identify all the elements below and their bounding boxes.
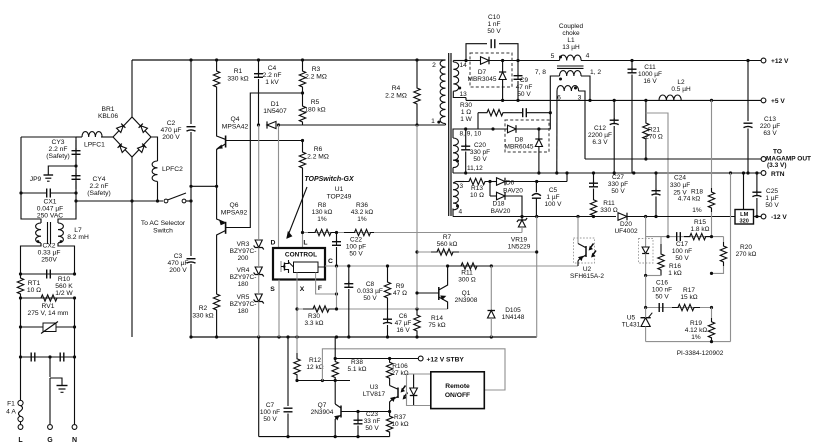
svg-text:R18: R18 (691, 189, 703, 196)
svg-text:C25: C25 (766, 188, 778, 195)
op-amp U1 TOPSwitch control block (273, 248, 325, 280)
diode box D8 (505, 120, 549, 152)
node junction (74, 199, 77, 202)
optocoupler U2 phototransistor (574, 238, 595, 263)
svg-text:4 A: 4 A (6, 409, 16, 416)
capacitor CY4 label (87, 176, 110, 197)
svg-text:U5: U5 (627, 315, 636, 322)
inductor L1 winding 5-4 (560, 55, 582, 60)
resistor R3 (299, 60, 305, 93)
capacitor C6 label (395, 313, 412, 334)
wire (186, 200, 191, 202)
svg-text:R13: R13 (471, 185, 483, 192)
zener VR5 (255, 294, 262, 302)
node junction (295, 379, 298, 382)
svg-text:R16: R16 (669, 263, 681, 270)
wire (646, 341, 731, 343)
svg-text:+12 V: +12 V (771, 58, 789, 65)
svg-text:R14: R14 (431, 315, 443, 322)
svg-text:R1: R1 (234, 68, 243, 75)
capacitor C10 (490, 39, 492, 48)
wire (477, 113, 479, 129)
svg-text:R9: R9 (396, 283, 405, 290)
terminal L (20, 422, 22, 424)
svg-text:63 V: 63 V (763, 130, 777, 137)
node junction (488, 180, 491, 183)
resistor R17 (672, 304, 700, 310)
resistor R20 (723, 237, 725, 242)
node junction (335, 264, 338, 267)
svg-text:50 V: 50 V (655, 294, 669, 301)
svg-text:R2: R2 (199, 305, 208, 312)
svg-text:1 kΩ: 1 kΩ (668, 270, 682, 277)
svg-text:R15: R15 (694, 219, 706, 226)
svg-text:50 V: 50 V (363, 295, 377, 302)
wire +5V rectified rail (465, 98, 467, 101)
resistor R19 (711, 308, 713, 319)
diode D8a (508, 125, 517, 133)
svg-text:F1: F1 (7, 401, 15, 408)
node junction (356, 410, 359, 413)
transformer pin 3 label (460, 183, 464, 190)
transistor Q4 MPSA42 (225, 136, 227, 148)
svg-text:R106: R106 (392, 363, 408, 370)
svg-text:BR1: BR1 (101, 106, 114, 113)
svg-text:1: 1 (431, 118, 435, 125)
wire (21, 356, 75, 358)
transformer T1 primary winding (440, 60, 445, 124)
resistor R9 (384, 266, 390, 302)
svg-text:ON/OFF: ON/OFF (445, 392, 470, 399)
svg-text:C10: C10 (488, 14, 500, 21)
svg-text:Coupled: Coupled (559, 23, 584, 30)
label +5V (771, 98, 785, 105)
svg-text:D105: D105 (505, 307, 521, 314)
shunt regulator U5 label (622, 315, 641, 329)
svg-text:C2: C2 (167, 120, 176, 127)
wire drain rail (279, 124, 446, 126)
svg-text:C13: C13 (764, 116, 776, 123)
pin label L (303, 240, 307, 247)
svg-text:choke: choke (562, 30, 580, 37)
svg-text:13: 13 (460, 91, 468, 98)
resistor R8 label (312, 202, 333, 223)
node junction (301, 139, 304, 142)
node junction (257, 123, 260, 126)
transformer pin 4 label (459, 209, 463, 216)
wire R8 row (303, 232, 418, 234)
svg-text:560 K: 560 K (55, 283, 73, 290)
resistor R11 label (458, 270, 476, 284)
transformer pin 14 label (460, 62, 468, 69)
wire (550, 76, 559, 113)
transistor Q7 2N3904 (334, 381, 336, 405)
svg-text:1%: 1% (692, 207, 702, 214)
svg-text:7, 8: 7, 8 (535, 69, 546, 76)
varistor RV1 (43, 323, 56, 332)
svg-text:50 V: 50 V (349, 251, 363, 258)
svg-text:CX1: CX1 (43, 199, 56, 206)
svg-text:R12: R12 (309, 357, 321, 364)
svg-text:MPSA42: MPSA42 (222, 124, 249, 131)
svg-text:UF4002: UF4002 (614, 228, 638, 235)
transformer pin 11,12 label (467, 165, 483, 172)
node junction (189, 185, 192, 188)
wire (20, 298, 22, 327)
annotation PI-3384-120902 (677, 350, 724, 357)
svg-text:1N5229: 1N5229 (508, 244, 531, 251)
svg-text:1%: 1% (317, 216, 327, 223)
svg-text:D8: D8 (515, 137, 524, 144)
svg-text:47 Ω: 47 Ω (393, 290, 407, 297)
resistor R14 (414, 309, 420, 337)
capacitor C16 (658, 303, 660, 312)
svg-text:33 nF: 33 nF (364, 418, 381, 425)
wire Q6 base (226, 93, 303, 228)
capacitor CY1 (30, 353, 32, 362)
diode D8 label (505, 137, 534, 151)
svg-text:1%: 1% (691, 334, 701, 341)
svg-text:10 Ω: 10 Ω (470, 192, 484, 199)
diode box D7 (470, 53, 512, 87)
ground (50, 378, 62, 386)
capacitor C22 (336, 233, 338, 242)
svg-text:10 kΩ: 10 kΩ (391, 421, 408, 428)
capacitor CY3 (75, 140, 77, 151)
svg-text:200 V: 200 V (162, 134, 180, 141)
wire bias rail (453, 216, 616, 218)
varistor RV1 label (27, 303, 68, 317)
wire startup feed (191, 185, 217, 187)
svg-text:13 µH: 13 µH (562, 44, 580, 51)
resistor R6 label (307, 146, 329, 161)
capacitor C24 (655, 173, 657, 191)
diode D105 label (502, 307, 525, 321)
wire R30 row (297, 308, 448, 310)
capacitor CX2 (46, 270, 48, 279)
svg-text:12 kΩ: 12 kΩ (306, 364, 323, 371)
wire (157, 182, 159, 202)
resistor R30 1ohm label (460, 102, 473, 123)
wire -12V rail (656, 216, 736, 218)
transformer T1 secondary winding 8,9,10-11,12 (453, 129, 478, 138)
svg-text:(Safety): (Safety) (87, 190, 110, 197)
fuse F1 (18, 400, 23, 405)
wire R7 row (417, 251, 537, 253)
jumper JP9 label (30, 176, 42, 183)
capacitor C2 label (161, 120, 182, 141)
svg-text:+12 V STBY: +12 V STBY (427, 356, 465, 363)
resistor R30 snubber (478, 110, 512, 116)
svg-text:X: X (300, 286, 305, 293)
svg-text:RV1: RV1 (42, 303, 55, 310)
capacitor C2 (187, 126, 196, 128)
svg-text:L2: L2 (677, 79, 685, 86)
node junction (415, 250, 418, 253)
capacitor CX1 (21, 192, 47, 194)
wire R11 row (448, 265, 492, 267)
svg-text:200: 200 (238, 255, 249, 262)
svg-text:BZY97C-: BZY97C- (230, 248, 257, 255)
optocoupler U3 phototransistor (389, 382, 391, 386)
wire (21, 193, 41, 223)
capacitor C3 (187, 258, 196, 260)
svg-text:C7: C7 (266, 402, 275, 409)
diode D1 label (263, 101, 287, 115)
wire (58, 243, 75, 274)
svg-text:C3: C3 (174, 253, 183, 260)
svg-text:VR4: VR4 (237, 267, 250, 274)
svg-text:R19: R19 (690, 320, 702, 327)
svg-text:R17: R17 (683, 287, 695, 294)
resistor R38 label (348, 359, 367, 373)
wire L pin (302, 233, 304, 249)
svg-text:1/2 W: 1/2 W (55, 290, 73, 297)
wire (416, 125, 418, 232)
svg-text:2.2 nF: 2.2 nF (49, 146, 68, 153)
svg-text:0.033 µF: 0.033 µF (357, 288, 383, 295)
svg-text:2.2 MΩ: 2.2 MΩ (305, 74, 327, 81)
svg-text:2200 µF: 2200 µF (588, 132, 612, 139)
svg-text:D6: D6 (506, 180, 515, 187)
zener VR4 label (230, 267, 257, 288)
label TO MAGAMP OUT (766, 149, 811, 170)
pin label X (300, 286, 305, 293)
svg-text:330 pF: 330 pF (470, 149, 490, 156)
resistor R13 (464, 178, 490, 184)
svg-text:C9: C9 (520, 77, 529, 84)
svg-text:275 V, 14 mm: 275 V, 14 mm (27, 310, 68, 317)
wire (645, 217, 647, 237)
capacitor C12 label (588, 125, 612, 146)
L1 pin 7,8 label (535, 69, 546, 76)
svg-text:50 V: 50 V (263, 416, 277, 423)
svg-text:D18: D18 (493, 201, 505, 208)
terminal +12V (761, 58, 766, 63)
wire (151, 137, 158, 161)
svg-text:470 µF: 470 µF (161, 127, 182, 134)
node junction (644, 274, 647, 277)
wire (646, 113, 668, 237)
resistor R36 label (351, 202, 374, 223)
svg-text:50 V: 50 V (517, 91, 531, 98)
svg-text:C22: C22 (350, 237, 362, 244)
resistor R38 (332, 359, 338, 381)
svg-text:330 Ω: 330 Ω (600, 207, 618, 214)
svg-text:BAV20: BAV20 (503, 188, 523, 195)
resistor R106 label (391, 363, 408, 377)
svg-text:LM: LM (740, 212, 748, 218)
diode D18 label (491, 201, 511, 216)
node junction (335, 292, 338, 295)
resistor R12 (296, 337, 298, 353)
svg-text:2.2 MΩ: 2.2 MΩ (307, 154, 329, 161)
diode D20 label (614, 221, 638, 235)
svg-text:CY4: CY4 (92, 176, 105, 183)
svg-text:BAV20: BAV20 (491, 208, 511, 215)
resistor R10 (38, 295, 60, 301)
svg-text:D7: D7 (478, 69, 487, 76)
resistor R5 (299, 93, 305, 125)
svg-text:BZY97C-: BZY97C- (230, 274, 257, 281)
wire (74, 327, 76, 357)
capacitor C9 (517, 61, 519, 76)
svg-text:50 V: 50 V (473, 156, 487, 163)
svg-text:15 kΩ: 15 kΩ (680, 294, 697, 301)
L1 pin 5 label (551, 53, 555, 60)
wire F pin (316, 280, 337, 294)
node junction (464, 59, 467, 62)
node junction (630, 59, 633, 62)
wire (536, 217, 538, 338)
resistor R37 label (391, 414, 408, 428)
svg-text:TOP249: TOP249 (327, 194, 352, 201)
svg-text:0.33 µF: 0.33 µF (38, 250, 61, 257)
bridge diode (118, 144, 127, 153)
svg-text:1 nF: 1 nF (487, 21, 500, 28)
svg-text:R5: R5 (311, 99, 320, 106)
svg-text:R11: R11 (461, 270, 473, 277)
svg-text:3.3 kΩ: 3.3 kΩ (305, 320, 324, 327)
svg-text:U3: U3 (370, 384, 379, 391)
capacitor C20 (465, 129, 467, 146)
svg-text:R38: R38 (351, 359, 363, 366)
svg-text:16 V: 16 V (643, 78, 657, 85)
resistor R9 label (393, 283, 407, 297)
wire (21, 136, 76, 138)
resistor R7 (431, 249, 459, 255)
svg-text:560 kΩ: 560 kΩ (437, 241, 458, 248)
label +12V (771, 58, 789, 65)
wire (190, 60, 192, 124)
wire LM320 ground (743, 173, 745, 210)
svg-text:C20: C20 (474, 142, 486, 149)
node junction (286, 435, 289, 438)
regulator U4 LM320 (735, 210, 754, 225)
zener VR4 (255, 267, 262, 275)
capacitor C25 label (765, 188, 779, 209)
capacitor C4 label (263, 65, 282, 86)
wire C pin row (325, 265, 578, 267)
resistor R11 330 label (600, 200, 618, 214)
svg-text:0.5 µH: 0.5 µH (671, 86, 691, 93)
capacitor C4 (258, 60, 260, 74)
pin label S (270, 286, 275, 293)
svg-text:F: F (318, 285, 322, 292)
svg-text:11,12: 11,12 (467, 165, 483, 172)
transformer T1 secondary winding 3-4 (453, 183, 458, 210)
svg-text:D: D (271, 240, 276, 247)
zener VR5 label (230, 294, 257, 315)
node junction (520, 215, 523, 218)
L1 pin 4 label (586, 53, 590, 60)
inductor LPFC2 label (162, 166, 183, 173)
capacitor CY3 label (46, 139, 69, 160)
svg-text:330 kΩ: 330 kΩ (227, 76, 248, 83)
svg-text:VR5: VR5 (237, 294, 250, 301)
svg-text:C6: C6 (399, 313, 408, 320)
transformer pin 8,9,10 label (460, 131, 482, 138)
svg-text:KBL06: KBL06 (98, 113, 118, 120)
resistor R15 label (691, 219, 710, 233)
svg-text:50 V: 50 V (487, 28, 501, 35)
wire (258, 302, 260, 338)
node junction (535, 250, 538, 253)
svg-text:R37: R37 (394, 414, 406, 421)
inductor L2 label (671, 79, 691, 93)
transistor Q1 label (455, 290, 478, 304)
capacitor C20 label (470, 142, 490, 163)
diode D1 (267, 121, 276, 128)
resistor R21 label (645, 127, 663, 141)
svg-text:2.2 nF: 2.2 nF (263, 72, 282, 79)
svg-text:270 kΩ: 270 kΩ (736, 251, 757, 258)
diode D7 label (468, 69, 497, 83)
svg-text:1 µF: 1 µF (546, 194, 559, 201)
zener VR19 (521, 217, 523, 221)
svg-text:R6: R6 (314, 146, 323, 153)
node junction (215, 58, 218, 61)
svg-text:6.3 V: 6.3 V (592, 139, 608, 146)
switch to AC selector (164, 199, 168, 203)
node junction (501, 99, 504, 102)
node junction (666, 235, 669, 238)
svg-text:6: 6 (557, 95, 561, 102)
svg-text:320: 320 (740, 219, 749, 225)
wire (216, 238, 218, 293)
svg-text:1, 2: 1, 2 (590, 69, 601, 76)
transformer T1 core (448, 53, 450, 216)
capacitor C8 label (357, 281, 383, 302)
resistor R106 (386, 359, 392, 383)
svg-text:Remote: Remote (445, 383, 470, 390)
svg-text:R21: R21 (648, 127, 660, 134)
svg-text:C16: C16 (656, 280, 668, 287)
node junction (535, 180, 538, 183)
inductor L1 winding 6-3 (557, 86, 579, 91)
svg-text:C27: C27 (612, 174, 624, 181)
diode D105 (490, 266, 492, 311)
wire (74, 298, 76, 327)
capacitor C27 label (608, 174, 628, 195)
bridge rectifier BR1 (113, 117, 151, 157)
wire (131, 60, 133, 117)
capacitor C17 (676, 232, 678, 241)
resistor R18 (711, 100, 713, 188)
svg-text:2.2 nF: 2.2 nF (90, 183, 109, 190)
svg-text:2N3904: 2N3904 (311, 409, 334, 416)
resistor R13 label (470, 185, 484, 199)
svg-text:RTN: RTN (771, 171, 785, 178)
svg-text:(3.3 V): (3.3 V) (767, 162, 787, 169)
svg-text:N: N (72, 437, 77, 444)
svg-text:4: 4 (586, 53, 590, 60)
terminal +5V (761, 98, 766, 103)
svg-text:CX2: CX2 (42, 243, 55, 250)
svg-text:L: L (18, 437, 23, 444)
capacitor C5 label (545, 187, 563, 208)
svg-text:C23: C23 (366, 411, 378, 418)
inductor L7 label (67, 227, 89, 241)
terminal magamp out (761, 157, 766, 162)
node junction (742, 171, 745, 174)
wire (20, 357, 22, 400)
node junction (334, 357, 337, 360)
svg-text:JP9: JP9 (30, 176, 42, 183)
svg-text:BZY97C-: BZY97C- (230, 301, 257, 308)
wire standby return (258, 337, 260, 437)
svg-text:3: 3 (578, 95, 582, 102)
